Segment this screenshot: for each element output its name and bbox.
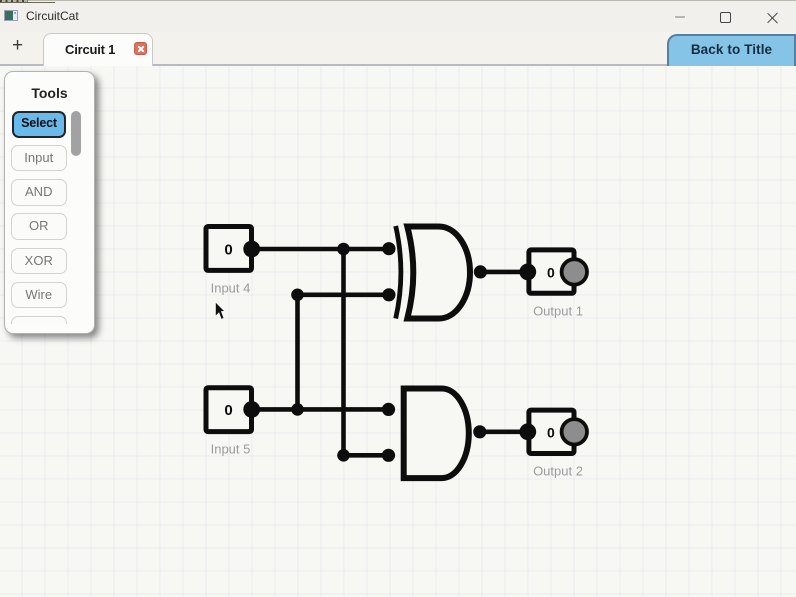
wire node B to xor bottom pin	[298, 292, 389, 297]
input switch Input 5	[206, 388, 260, 432]
wire node D to and bottom pin	[344, 453, 389, 458]
wire input4 to xor top pin	[252, 247, 389, 252]
tools panel	[4, 71, 95, 334]
wire vertical x297 node B to node C	[295, 295, 300, 410]
svg-text:Input 5: Input 5	[211, 442, 251, 457]
wire input5 to and top pin	[252, 407, 389, 412]
wire xor output to output1	[480, 270, 527, 275]
svg-text:0: 0	[224, 242, 232, 259]
xor gate U1	[382, 226, 487, 319]
window title bar	[0, 0, 796, 32]
svg-text:Output 2: Output 2	[533, 464, 583, 479]
svg-text:0: 0	[224, 402, 232, 419]
junction node D	[337, 449, 350, 462]
wire vertical x343 from node A down to node D	[341, 249, 346, 455]
input switch Input 4	[206, 227, 260, 271]
junction node B	[291, 289, 304, 302]
svg-text:0: 0	[547, 264, 555, 280]
svg-text:Input 4: Input 4	[211, 281, 251, 296]
junction node C	[291, 403, 304, 416]
svg-text:Output 1: Output 1	[533, 303, 583, 318]
output lamp Output 1	[519, 250, 587, 293]
svg-text:0: 0	[547, 424, 555, 440]
label Output 1	[533, 303, 583, 318]
label Input 4	[211, 281, 251, 296]
output lamp Output 2	[519, 410, 587, 453]
mouse cursor	[215, 302, 225, 320]
and gate U2	[382, 389, 487, 479]
junction node A	[337, 243, 350, 256]
label Input 5	[211, 442, 251, 457]
wire and output to output2	[480, 429, 528, 434]
label Output 2	[533, 464, 583, 479]
tab bar	[0, 32, 796, 66]
